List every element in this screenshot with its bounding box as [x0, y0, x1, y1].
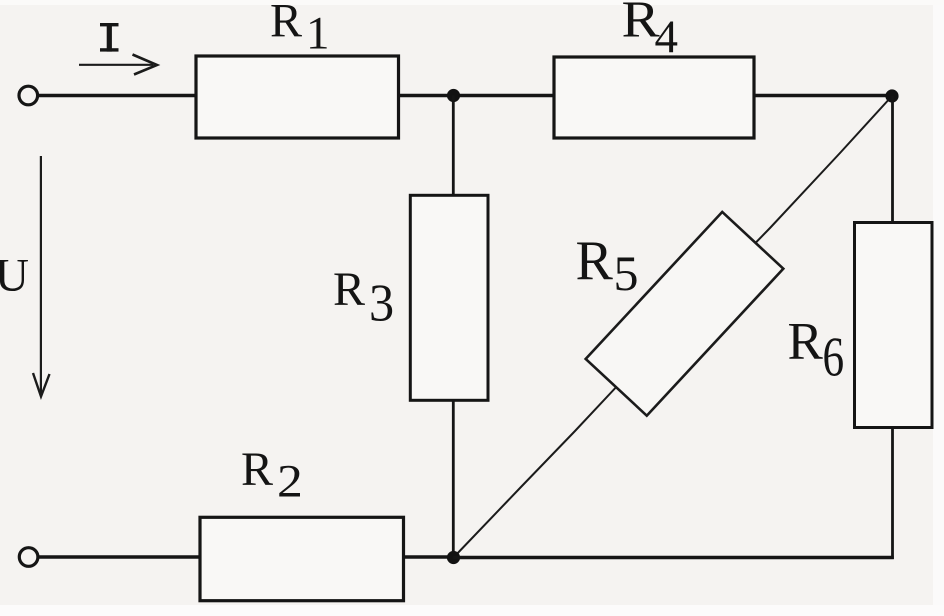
resistor R3	[410, 195, 488, 400]
svg-text:5: 5	[614, 245, 639, 301]
current arrow I	[79, 55, 157, 75]
wire: terminal to R1	[38, 94, 197, 97]
wire: R6 down to bottom wire	[891, 428, 894, 560]
resistor R2	[200, 517, 404, 600]
svg-text:R: R	[576, 230, 614, 292]
label R5	[576, 230, 639, 301]
terminal bottom-left	[19, 548, 38, 567]
label R3	[333, 263, 394, 333]
node A (junction R1/R3/R4)	[447, 89, 460, 102]
label R1	[270, 0, 330, 60]
label R6	[788, 313, 845, 388]
svg-text:4: 4	[655, 11, 679, 63]
node C (junction R2/R3/R5/bottom wire)	[447, 551, 460, 564]
svg-text:2: 2	[277, 455, 303, 507]
terminal top-left	[19, 86, 38, 105]
wire: node A down to R3	[452, 96, 455, 197]
svg-text:R: R	[241, 443, 273, 496]
resistor R5 (rotated body over the diagonal wire)	[586, 212, 784, 416]
svg-text:1: 1	[306, 8, 330, 60]
svg-text:3: 3	[369, 274, 394, 332]
wire: bottom run to the right	[454, 556, 894, 559]
node B (junction R4/R5/R6)	[885, 89, 898, 102]
voltage arrow U	[33, 156, 50, 397]
svg-text:U: U	[0, 250, 29, 302]
svg-text:6: 6	[823, 325, 845, 388]
label I	[100, 23, 119, 52]
wire: diagonal from bottom-middle node to top-right node	[454, 96, 893, 558]
svg-text:R: R	[270, 0, 302, 48]
wire: R4 to right node	[754, 94, 892, 97]
wire: node B down to R6	[891, 96, 894, 223]
wire: R1 to R4	[399, 94, 556, 97]
wire: R2 to bottom node	[404, 555, 454, 558]
resistor R1	[196, 56, 399, 138]
svg-text:R: R	[333, 263, 365, 316]
label R4	[622, 0, 679, 63]
resistor R4	[554, 57, 754, 138]
resistor R6	[855, 223, 933, 428]
wire: terminal to R2	[38, 555, 201, 558]
label R2	[241, 443, 303, 507]
svg-text:R: R	[788, 313, 824, 371]
wire: R3 down to bottom node	[452, 400, 455, 558]
